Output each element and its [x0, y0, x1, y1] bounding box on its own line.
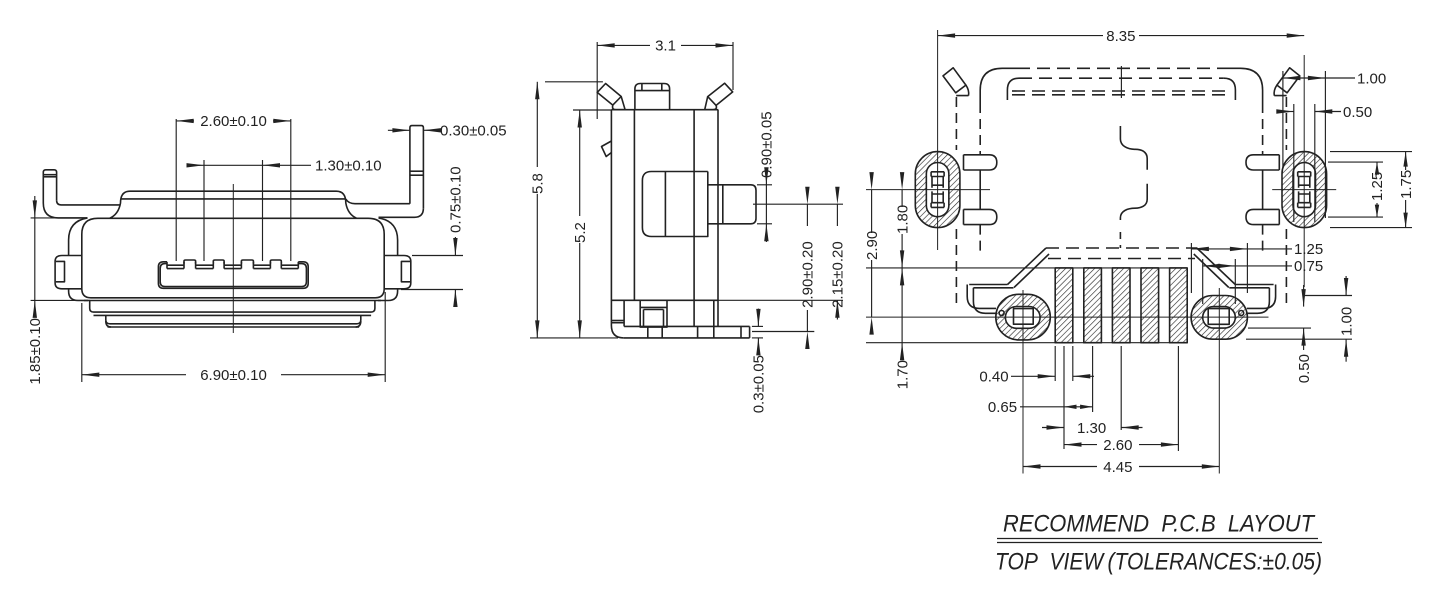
left tab bend lines: [43, 174, 56, 176]
bottom plate 2: [106, 315, 361, 323]
svg-text:0.50: 0.50: [1296, 354, 1313, 383]
shell front edges (hidden, dashed): [1017, 67, 1226, 69]
lower contact block: [640, 300, 667, 327]
shell outer right wall: [378, 218, 398, 301]
svg-text:2.60: 2.60: [1103, 437, 1132, 454]
rear wing left: [969, 284, 1007, 286]
svg-text:8.35: 8.35: [1106, 28, 1135, 45]
recommended PCB layout (top view): [864, 28, 1415, 476]
dimension 1.70 left: [901, 268, 903, 343]
centre S-jog hidden feature: [1120, 126, 1147, 170]
body left edge with bottom corner: [611, 110, 623, 338]
top-right mounting pad (hatched obround): [1282, 152, 1327, 228]
svg-text:0.75±0.10: 0.75±0.10: [448, 166, 465, 233]
dimension 1.80 left: [901, 190, 903, 207]
bottom-right mounting pad (hatched obround): [1191, 296, 1247, 340]
left double line: [611, 320, 624, 322]
right solder tab (0.30 thick): [410, 126, 424, 209]
left bent tab (45°): [597, 84, 621, 106]
svg-text:1.25: 1.25: [1369, 172, 1386, 201]
feet dividers: [623, 300, 625, 326]
dimension 4.45: [1023, 466, 1097, 468]
svg-text:2.90±0.20: 2.90±0.20: [800, 241, 817, 308]
left latch fingers: [964, 155, 997, 170]
dimension 0.75 bottom: [1202, 259, 1204, 304]
pad hole slot detail: [931, 172, 944, 177]
svg-text:2.90: 2.90: [864, 231, 881, 260]
svg-text:1.80: 1.80: [894, 205, 911, 234]
shell front-left corner (solid): [980, 68, 1017, 103]
svg-text:1.75: 1.75: [1398, 170, 1415, 199]
dimension 3.1: [596, 42, 598, 119]
dimension 1.30±0.10: [203, 160, 205, 261]
svg-text:1.85±0.10: 1.85±0.10: [27, 318, 44, 385]
5 signal pads (hatched): [1055, 268, 1073, 343]
svg-text:1.25: 1.25: [1294, 241, 1323, 258]
svg-text:1.00: 1.00: [1338, 307, 1355, 336]
contact nose: [708, 185, 756, 224]
raised tab between slots 4-5: [270, 260, 281, 264]
svg-text:0.30±0.05: 0.30±0.05: [440, 123, 507, 140]
raised tab between slots 1-2: [184, 260, 196, 264]
rear chamfer left: [1008, 248, 1047, 285]
rear corner left: [967, 285, 996, 309]
title: RECOMMEND P.C.B LAYOUT: [995, 511, 1322, 576]
pad hole slot detail: [1298, 172, 1311, 177]
dimension 1.25 bottom: [1190, 243, 1192, 293]
shell outer left wall: [69, 218, 88, 301]
pad centerlines: [937, 30, 939, 250]
svg-text:6.90±0.10: 6.90±0.10: [200, 367, 267, 384]
rear chamfer right: [1197, 248, 1236, 285]
hidden widest edge left (dashed): [955, 97, 957, 150]
receptacle opening outer: [158, 262, 308, 289]
contact support bulge: [642, 172, 707, 237]
svg-text:3.1: 3.1: [655, 38, 676, 55]
contact slot 4: [253, 264, 270, 266]
left side flag: [602, 141, 612, 157]
bottom-left mounting pad (hatched obround): [996, 294, 1051, 340]
dimension 0.50 bottom-right: [1248, 327, 1311, 329]
dimension 0.30±0.05: [388, 129, 410, 131]
hidden widest edge right (dashed): [1285, 97, 1287, 150]
receptacle opening inner: [160, 264, 306, 287]
right bent tab footprint: [1277, 68, 1300, 93]
left bent tab footprint: [943, 68, 966, 93]
right latch fingers: [1246, 155, 1279, 170]
dimension 2.15±0.20: [718, 299, 843, 301]
middle crimp tab: [635, 84, 670, 110]
left arm (rear flange): [43, 200, 120, 218]
svg-text:2.60±0.10: 2.60±0.10: [200, 113, 267, 130]
svg-text:TOP VIEW (TOLERANCES:±0.05): TOP VIEW (TOLERANCES:±0.05): [995, 549, 1322, 576]
rear corner right: [1247, 285, 1276, 309]
shell body front face (inner outline): [82, 218, 384, 297]
left solder tab: [43, 170, 56, 203]
shell left edge segments: [979, 103, 981, 155]
shell rear edge (hidden, dashed): [1046, 247, 1197, 249]
bottom plate / solder feet: [624, 325, 750, 327]
svg-text:0.3±0.05: 0.3±0.05: [751, 355, 768, 413]
dimension 1.85±0.10: [31, 217, 87, 219]
left side latch bump: [55, 256, 82, 289]
bottom-right pad slot detail: [1208, 308, 1229, 325]
raised tab between slots 3-4: [241, 260, 253, 264]
dimension 1.00 top: [1282, 71, 1284, 167]
dimension 2.90 left: [871, 190, 873, 233]
dimension 6.90±0.10: [81, 303, 83, 382]
dimension 0.75±0.10: [412, 255, 463, 257]
svg-text:0.75: 0.75: [1294, 258, 1323, 275]
bottom-left pad slot detail: [1014, 308, 1034, 325]
svg-text:0.50: 0.50: [1343, 104, 1372, 121]
top-left mounting pad (hatched obround): [915, 152, 960, 228]
svg-text:1.00: 1.00: [1357, 70, 1386, 87]
svg-text:0.65: 0.65: [988, 399, 1017, 416]
shell right edge segments: [1262, 103, 1264, 155]
right arm (rear flange): [346, 199, 424, 217]
dimension 0.40: [1054, 346, 1056, 381]
centerline front view: [232, 184, 234, 333]
svg-text:1.30: 1.30: [1077, 420, 1106, 437]
dimension 5.8: [545, 81, 603, 83]
shelf line: [611, 299, 718, 301]
svg-text:0.40: 0.40: [979, 369, 1008, 386]
svg-text:5.8: 5.8: [530, 173, 547, 194]
dimension 0.65: [1063, 346, 1065, 449]
svg-text:RECOMMEND P.C.B LAYOUT: RECOMMEND P.C.B LAYOUT: [1003, 511, 1316, 538]
contact slot 2: [196, 264, 214, 266]
right tab bend lines: [410, 170, 424, 172]
bottom ref line for 5.8/5.2: [530, 337, 618, 339]
dimension 0.90±0.05: [757, 184, 772, 186]
dimension 1.25 right: [1328, 161, 1383, 163]
bottom plate 1: [84, 300, 381, 302]
right bent tab (45°): [708, 83, 733, 105]
dimension 8.35: [938, 35, 1103, 37]
svg-text:1.30±0.10: 1.30±0.10: [315, 158, 382, 175]
dimension 1.30: [1120, 346, 1122, 430]
contact slot 5: [281, 264, 298, 266]
body right edge: [717, 110, 719, 327]
body inner vertical right: [693, 110, 695, 327]
shell front-right corner (solid): [1226, 68, 1263, 103]
dimension 2.90±0.20: [752, 331, 814, 333]
contact slot 1: [167, 264, 184, 266]
right side latch bump: [384, 256, 411, 289]
svg-text:1.70: 1.70: [894, 360, 911, 389]
body inner vertical left: [633, 110, 635, 301]
raised tab between slots 2-3: [213, 260, 224, 264]
dimension 5.2: [573, 109, 611, 111]
top cover plate: [110, 191, 357, 218]
dimension 2.60±0.10: [175, 119, 177, 261]
dimension 1.00 bottom-right: [1304, 295, 1352, 297]
rear wing right: [1235, 284, 1273, 286]
nose centre ref line: [753, 203, 843, 205]
dimension 1.75 right: [1330, 151, 1412, 153]
left ref lines: [866, 267, 1187, 269]
dimension 0.50 top: [1293, 104, 1295, 222]
svg-text:4.45: 4.45: [1103, 459, 1132, 476]
svg-text:0.90±0.05: 0.90±0.05: [759, 111, 776, 178]
svg-text:2.15±0.20: 2.15±0.20: [830, 241, 847, 308]
top cover thickness line: [121, 198, 346, 200]
body top edge: [611, 109, 718, 111]
dimension 0.3±0.05: [752, 325, 763, 327]
front view of micro-USB receptacle: [27, 113, 507, 384]
centre tick: [1120, 66, 1122, 98]
side view of connector: [530, 38, 847, 414]
dimension 2.60: [1177, 346, 1179, 451]
svg-text:5.2: 5.2: [572, 222, 589, 243]
contact slot 3: [224, 264, 241, 266]
